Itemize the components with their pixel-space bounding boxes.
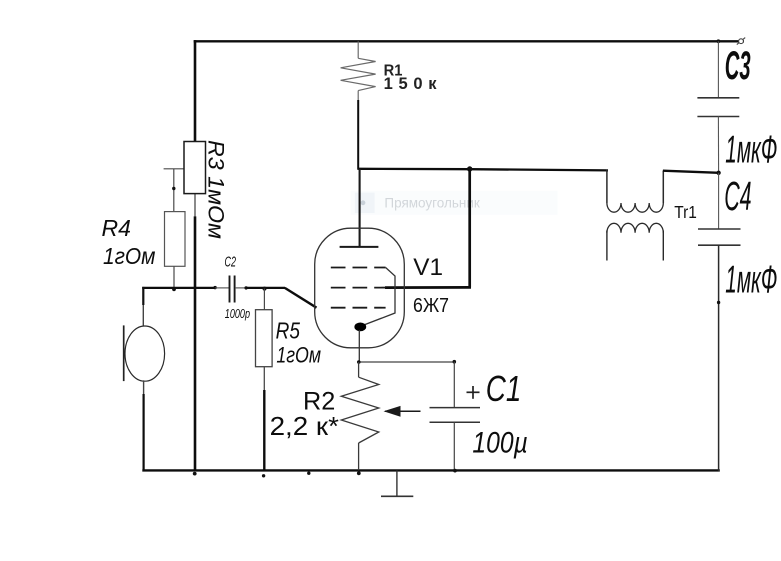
grid 3 (suppressor): [331, 267, 386, 269]
wire: secondary right lead: [662, 231, 664, 261]
plate (anode): [340, 246, 379, 248]
resistor R1: [341, 41, 376, 101]
tube V1 envelope: [315, 228, 405, 348]
svg-text:1мкФ: 1мкФ: [725, 259, 777, 302]
wire: R4 top tap: [164, 168, 195, 170]
wire: left vertical bus (upper): [194, 40, 197, 142]
svg-text:100µ: 100µ: [472, 426, 527, 459]
node after C2: [244, 286, 247, 289]
svg-text:6Ж7: 6Ж7: [413, 294, 449, 317]
node on right return: [717, 301, 720, 304]
grid 2 (screen): [331, 287, 386, 289]
wire: R1 lower lead: [357, 100, 359, 170]
wire: C3 top lead: [717, 41, 719, 98]
svg-text:C2: C2: [225, 255, 237, 271]
cathode: [354, 323, 366, 332]
tooltip artifact "Прямоугольник": [351, 191, 558, 215]
wire: screen horizontal to tube: [385, 286, 471, 289]
svg-text:R4: R4: [102, 215, 131, 241]
transformer Tr1 primary winding: [607, 203, 663, 212]
wire: ground rail: [142, 469, 720, 471]
node R5 at rail: [262, 474, 265, 477]
wiper arrow of R2: [385, 410, 421, 412]
wire: R3 bottom lead: [194, 193, 196, 216]
svg-text:1000p: 1000p: [225, 307, 250, 321]
node at R5 top: [263, 287, 267, 291]
wire: C2 right stub: [235, 287, 246, 289]
wire: mic lower lead: [143, 380, 145, 394]
plus sign of C1: [467, 391, 480, 393]
wire: cathode lead: [358, 330, 360, 362]
node at C1 top: [453, 360, 457, 364]
capacitor C1: [453, 362, 455, 408]
wire: C3 bottom lead: [717, 117, 719, 173]
ground symbol: [396, 470, 398, 496]
wire: grid line to tube: [246, 287, 285, 289]
microphone M1: [142, 287, 144, 305]
wire: plate lead: [359, 169, 361, 247]
svg-text:1гОм: 1гОм: [103, 243, 156, 269]
node at top right: [717, 39, 721, 43]
svg-text:C1: C1: [486, 368, 522, 409]
svg-text:1гОм: 1гОм: [276, 342, 321, 367]
potentiometer R2: [341, 362, 379, 470]
svg-text:R5: R5: [276, 318, 300, 344]
wire: anode rail to transformer: [358, 169, 608, 171]
svg-text:Tr1: Tr1: [674, 202, 697, 222]
transformer Tr1 primary right leg: [662, 171, 664, 203]
node C1 at rail: [453, 469, 457, 473]
wire: R5 lower lead thick: [263, 390, 265, 471]
node before C2: [213, 286, 216, 289]
wire: secondary left lead: [606, 231, 608, 261]
grid 1 (control): [331, 307, 386, 309]
wire: C2 left stub: [215, 287, 229, 289]
node at Tr1/C3/C4 junction: [716, 171, 720, 175]
resistor R3: [184, 142, 206, 194]
resistor R4: [165, 212, 186, 267]
wire: top supply rail: [194, 40, 744, 42]
node left bus at rail: [193, 472, 197, 476]
wire: left vertical bus (lower): [194, 216, 197, 471]
node at R4 bottom: [172, 287, 176, 291]
svg-text:C3: C3: [725, 44, 751, 88]
capacitor C4: [698, 228, 741, 230]
wire: R4 upper lead: [173, 169, 175, 212]
wire: cathode to C1: [359, 361, 455, 363]
wire: input line (mic to C2): [142, 287, 215, 289]
transformer Tr1 primary left leg: [606, 170, 608, 204]
svg-text:C4: C4: [724, 173, 751, 219]
capacitor C2: [229, 276, 231, 303]
resistor R5: [256, 310, 273, 367]
wire: R4 lower lead: [173, 266, 175, 288]
node on R4 upper lead: [172, 187, 175, 190]
node at cathode junction: [357, 360, 361, 364]
wire: R5 lower lead thin: [263, 367, 265, 390]
wire: screen drop vertical: [468, 169, 471, 287]
wire: R5 upper lead: [263, 289, 265, 310]
terminal: output pin at top right: [737, 38, 745, 45]
wire: suppressor-cathode link: [363, 268, 396, 326]
wire: diagonal to control grid: [285, 288, 317, 308]
wire: primary to output node: [663, 171, 719, 173]
node at screen tap: [467, 166, 472, 171]
wire: right vertical return: [718, 245, 720, 471]
capacitor C3: [697, 97, 739, 99]
node R2 at rail: [357, 471, 361, 475]
svg-text:R3 1мОм: R3 1мОм: [204, 140, 229, 239]
svg-text:2,2 к*: 2,2 к*: [270, 411, 339, 441]
wire: C4 top lead: [718, 173, 720, 229]
node stray at rail: [307, 472, 310, 475]
svg-text:1мкФ: 1мкФ: [725, 128, 777, 171]
svg-text:V1: V1: [413, 254, 443, 281]
svg-text:Прямоугольник: Прямоугольник: [384, 196, 480, 211]
transformer Tr1 secondary winding: [607, 223, 663, 232]
